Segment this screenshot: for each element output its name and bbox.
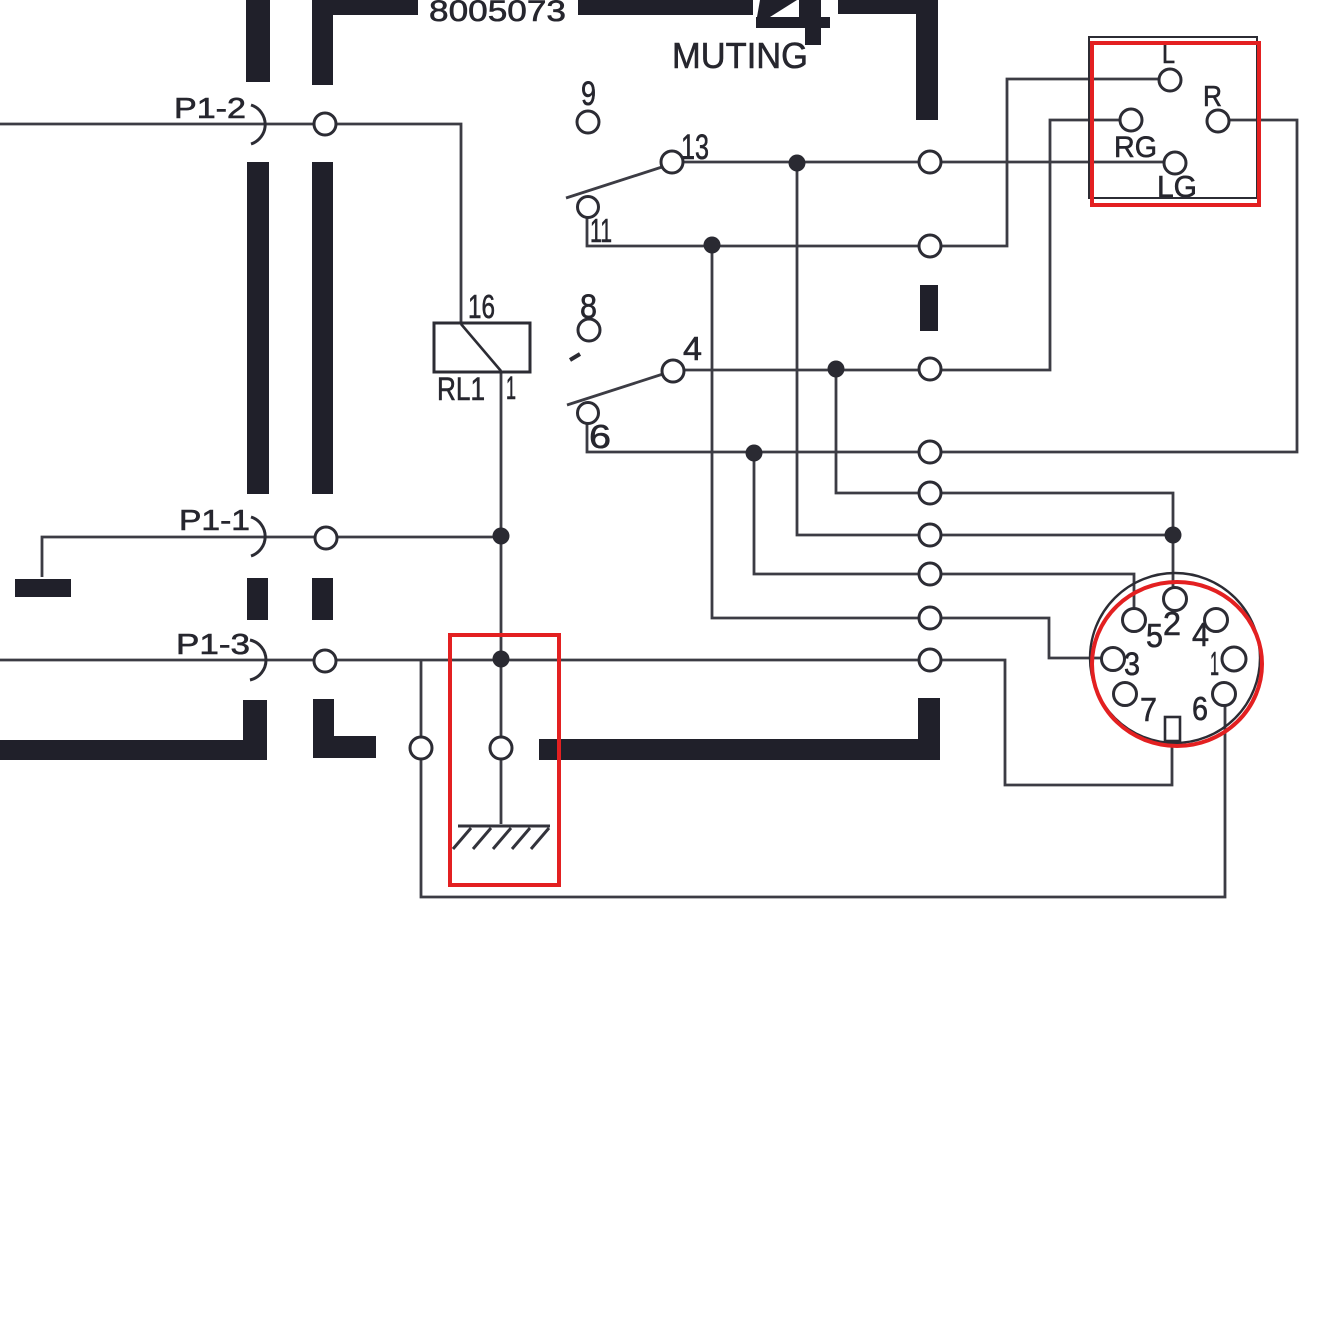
- connector row circle 5: [919, 482, 941, 504]
- svg-text:P1-3: P1-3: [176, 629, 250, 661]
- board frame bottom middle L: [313, 699, 376, 758]
- junction node P1-1 relay: [493, 528, 510, 545]
- svg-text:6: 6: [1192, 690, 1208, 727]
- chassis stub bar P1-1: [15, 579, 71, 597]
- connector row circle 8: [919, 607, 941, 629]
- wire contact 6 to R: [587, 120, 1297, 452]
- board frame bar column A upper: [246, 0, 270, 82]
- annotation black box L R RG LG: [1089, 37, 1257, 198]
- DIN pin 6: [1213, 683, 1236, 706]
- DIN keyway notch: [1165, 717, 1180, 741]
- wire P1-1 branch to chassis stub: [42, 537, 498, 577]
- board frame bar column B upper: [312, 0, 333, 85]
- wire node B row to DIN pin 2: [797, 163, 1173, 588]
- terminal LG: [1164, 152, 1186, 174]
- wire contact 4 to RG: [685, 120, 1120, 370]
- svg-text:RG: RG: [1114, 131, 1157, 164]
- svg-text:P1-2: P1-2: [174, 93, 246, 125]
- terminal RG: [1120, 109, 1142, 131]
- stray dash mark: [570, 354, 580, 360]
- junction node DIN pin2 branch: [1165, 527, 1182, 544]
- connector row circle 6: [919, 524, 941, 546]
- connector hook P1-3: [250, 640, 266, 680]
- junction node 4-row: [828, 361, 845, 378]
- connector row circle 3: [919, 358, 941, 380]
- annotation red circle DIN: [1092, 582, 1262, 746]
- wire contact 13 to LG: [684, 161, 1164, 164]
- terminal circle P1-2: [314, 113, 336, 135]
- wire contact 11 to L: [587, 79, 1159, 246]
- junction node 6-row: [746, 445, 763, 462]
- svg-text:8: 8: [580, 288, 597, 326]
- DIN pin 5: [1123, 609, 1146, 632]
- wire node C row to DIN pin 5: [754, 453, 1134, 608]
- contact 6: [578, 403, 599, 424]
- board frame bars top: [312, 0, 938, 120]
- svg-text:1: 1: [506, 370, 516, 406]
- board frame bar column B lower: [312, 578, 333, 620]
- connector hook P1-1: [251, 517, 265, 556]
- svg-text:MUTING: MUTING: [672, 35, 808, 76]
- svg-text:16: 16: [468, 288, 495, 325]
- svg-text:4: 4: [683, 330, 702, 367]
- connector row circle 2: [919, 235, 941, 257]
- connector row circle 1: [919, 151, 941, 173]
- svg-text:13: 13: [681, 128, 709, 167]
- relay RL1: [434, 323, 530, 372]
- svg-text:8005073: 8005073: [429, 0, 566, 28]
- junction node P1-3 ground: [493, 651, 510, 668]
- svg-text:P1-1: P1-1: [179, 505, 250, 537]
- svg-text:11: 11: [590, 212, 612, 249]
- svg-text:5: 5: [1146, 617, 1163, 654]
- contact 11: [578, 197, 599, 218]
- svg-text:2: 2: [1163, 605, 1181, 642]
- svg-text:1: 1: [1210, 645, 1219, 682]
- svg-text:9: 9: [581, 75, 596, 113]
- annotation red box ground: [450, 635, 559, 885]
- connector row circle 7: [919, 563, 941, 585]
- terminal circle P1-3: [314, 650, 336, 672]
- connector row circle 9: [919, 649, 941, 671]
- board frame bar column A middle: [247, 162, 269, 494]
- junction node 11-row: [704, 237, 721, 254]
- DIN pin 7: [1114, 683, 1137, 706]
- DIN pin 1: [1222, 647, 1246, 671]
- board frame bottom left L: [0, 700, 267, 760]
- junction node 13-row: [789, 155, 806, 172]
- board frame bottom right bar: [539, 698, 940, 760]
- ground: [453, 826, 550, 849]
- pass-through circle ground: [490, 737, 512, 759]
- svg-text:RL1: RL1: [437, 371, 485, 407]
- wire P1-3 row: [0, 660, 1172, 785]
- contact 8: [578, 319, 600, 341]
- contact 4: [662, 360, 684, 382]
- svg-text:6: 6: [589, 418, 611, 455]
- contact 13: [661, 151, 683, 173]
- svg-text:R: R: [1203, 81, 1222, 113]
- terminal circle P1-1: [315, 527, 337, 549]
- svg-text:3: 3: [1124, 646, 1140, 682]
- terminal R: [1207, 110, 1229, 132]
- svg-text:7: 7: [1140, 691, 1157, 728]
- pass-through circle left: [410, 737, 432, 759]
- numeral 4 block top: [756, 0, 830, 45]
- wire relay RL1 pin 1 to ground: [500, 372, 503, 824]
- switch blade 6-4: [567, 374, 663, 405]
- board frame small bar column connector: [920, 285, 938, 331]
- wire node A row to DIN pin 2 branch: [836, 369, 1173, 535]
- DIN pin 4: [1205, 609, 1228, 632]
- DIN pin 2: [1164, 588, 1187, 611]
- board frame bar column B middle: [312, 162, 333, 494]
- board frame bar column A lower: [247, 578, 268, 620]
- DIN pin 3: [1102, 648, 1125, 671]
- wire node D row to DIN pin 3: [712, 245, 1102, 658]
- wire P1-3 drop to DIN pin 6: [421, 660, 1225, 897]
- contact 9: [577, 111, 599, 133]
- wire P1-2 to relay RL1 pin 16: [0, 124, 461, 323]
- annotation red box top: [1092, 43, 1259, 205]
- DIN socket outline: [1090, 573, 1260, 743]
- connector hook P1-2: [251, 105, 265, 144]
- connector row circle 4: [919, 441, 941, 463]
- terminal L: [1159, 69, 1181, 91]
- switch blade 11-13: [566, 167, 662, 198]
- svg-text:4: 4: [1192, 616, 1209, 653]
